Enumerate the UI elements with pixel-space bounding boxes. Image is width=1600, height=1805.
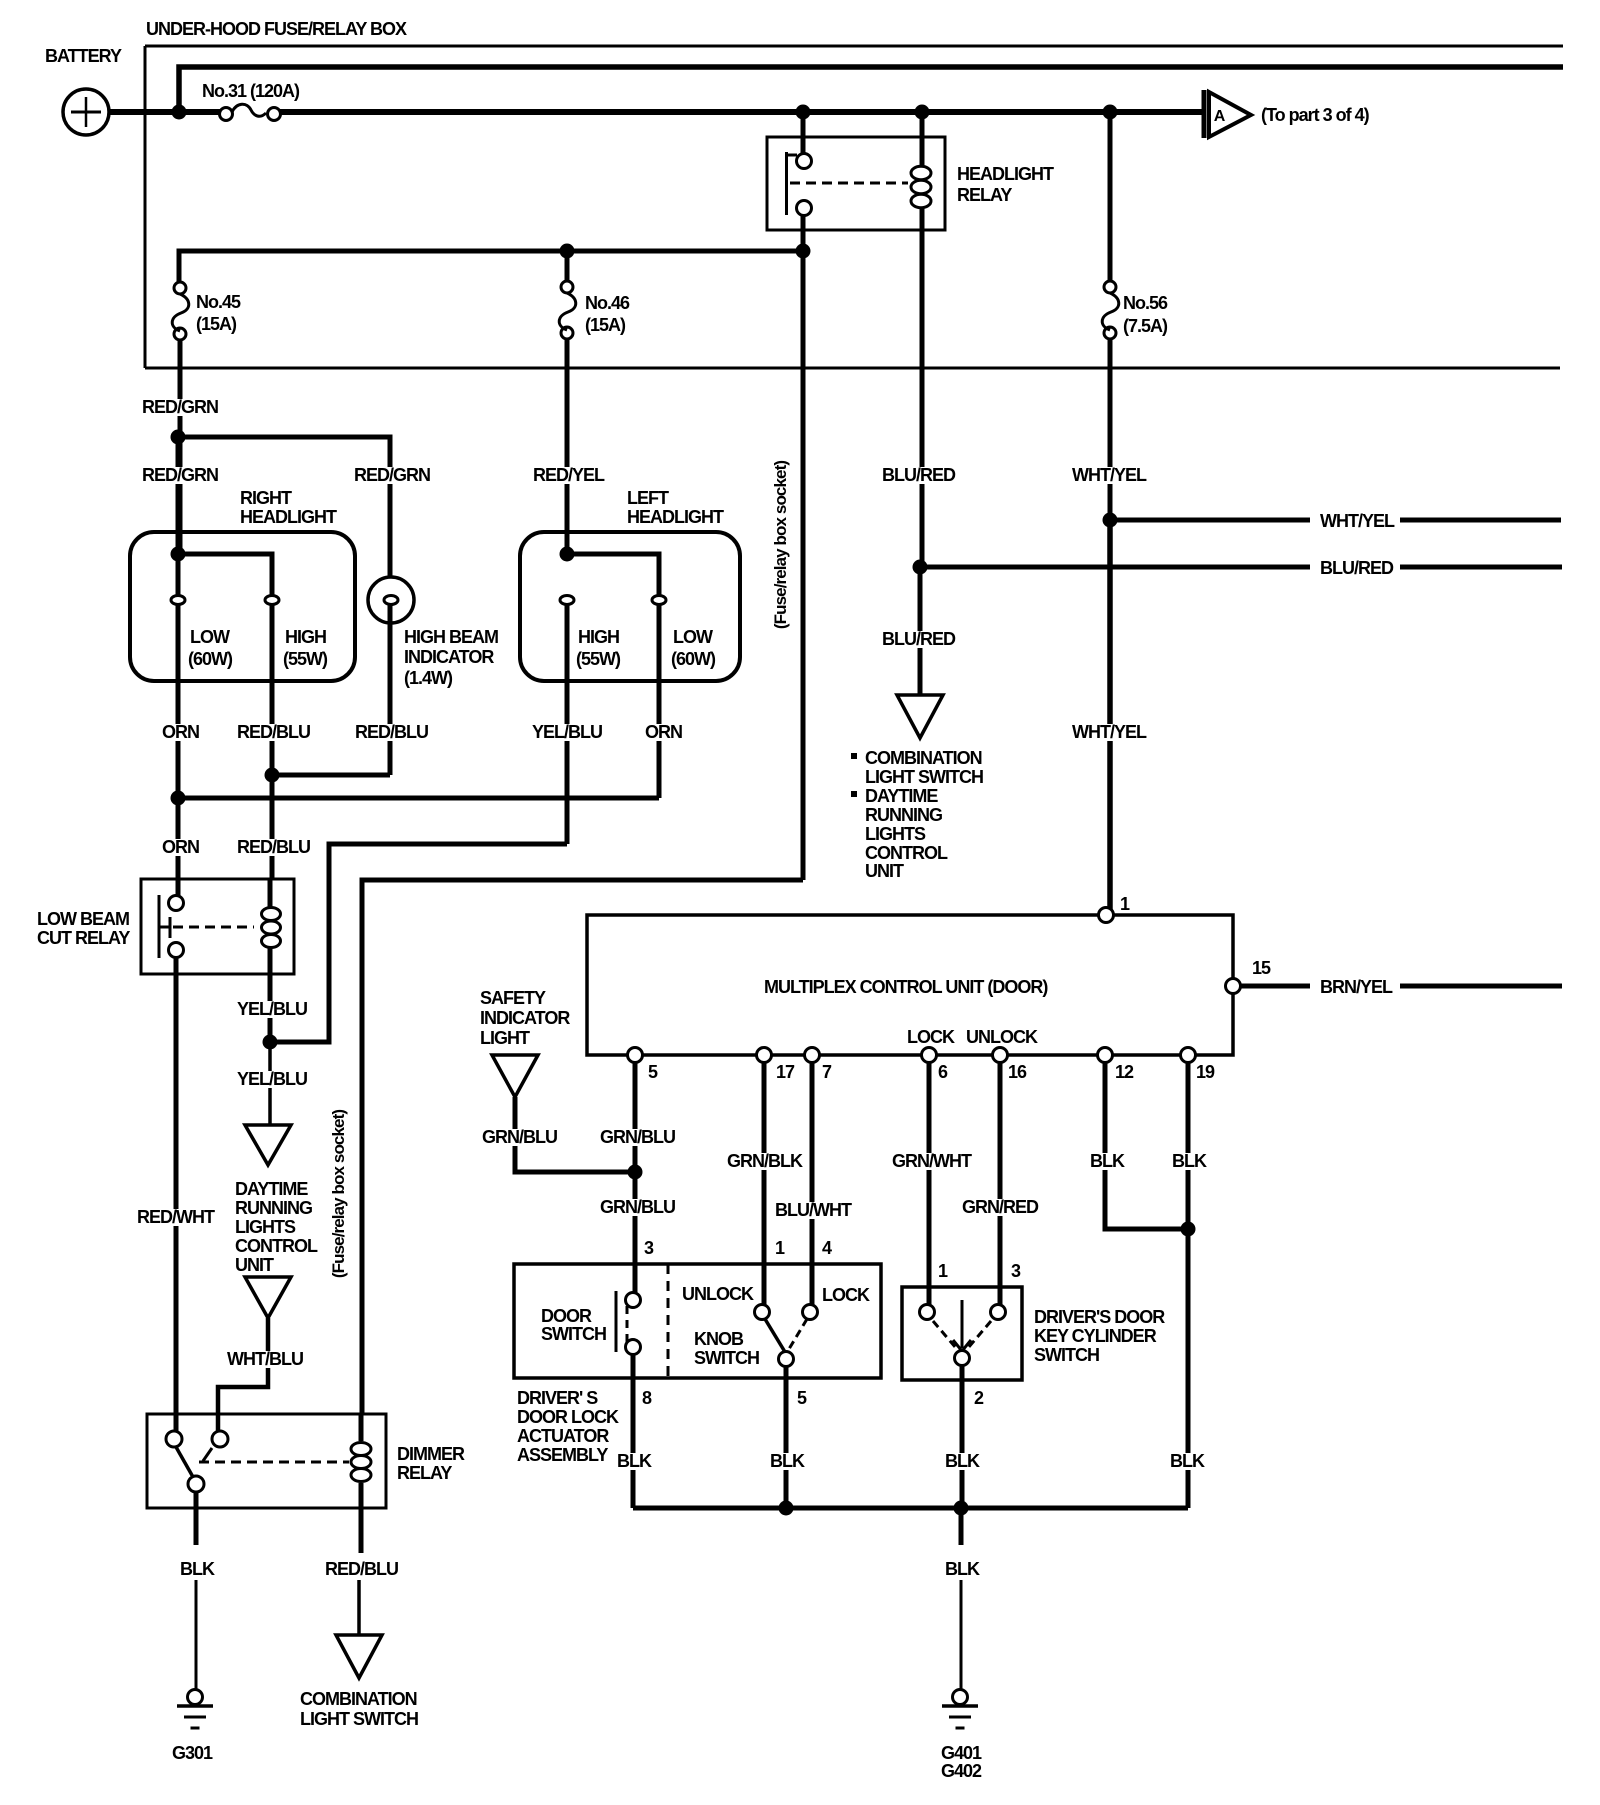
svg-text:DOOR: DOOR [541, 1306, 592, 1326]
svg-text:WHT/YEL: WHT/YEL [1320, 511, 1395, 531]
svg-text:INDICATOR: INDICATOR [480, 1008, 570, 1028]
svg-text:ORN: ORN [162, 837, 199, 857]
svg-text:(15A): (15A) [585, 315, 626, 335]
svg-text:(60W): (60W) [671, 649, 716, 669]
svg-text:G402: G402 [941, 1761, 982, 1781]
svg-text:HEADLIGHT: HEADLIGHT [240, 507, 337, 527]
svg-text:SWITCH: SWITCH [541, 1324, 606, 1344]
svg-text:(To part 3 of 4): (To part 3 of 4) [1261, 105, 1370, 125]
svg-text:COMBINATION: COMBINATION [865, 748, 982, 768]
svg-text:No.46: No.46 [585, 293, 630, 313]
svg-text:GRN/BLU: GRN/BLU [600, 1127, 675, 1147]
svg-text:KNOB: KNOB [694, 1329, 744, 1349]
svg-text:RED/YEL: RED/YEL [533, 465, 605, 485]
svg-text:HIGH: HIGH [578, 627, 619, 647]
svg-text:WHT/BLU: WHT/BLU [227, 1349, 303, 1369]
svg-text:CUT RELAY: CUT RELAY [37, 928, 130, 948]
svg-text:RELAY: RELAY [957, 185, 1012, 205]
svg-text:GRN/BLK: GRN/BLK [727, 1151, 803, 1171]
svg-text:LOCK: LOCK [907, 1027, 955, 1047]
svg-text:No.31 (120A): No.31 (120A) [202, 81, 300, 101]
svg-text:BLK: BLK [945, 1559, 980, 1579]
svg-text:(1.4W): (1.4W) [404, 668, 453, 688]
svg-text:UNLOCK: UNLOCK [966, 1027, 1038, 1047]
svg-text:HIGH: HIGH [285, 627, 326, 647]
svg-text:LIGHT SWITCH: LIGHT SWITCH [865, 767, 983, 787]
svg-text:G401: G401 [941, 1743, 982, 1763]
svg-text:COMBINATION: COMBINATION [300, 1689, 417, 1709]
svg-text:19: 19 [1196, 1062, 1215, 1082]
svg-text:RED/GRN: RED/GRN [354, 465, 430, 485]
svg-text:BLK: BLK [180, 1559, 215, 1579]
svg-text:UNLOCK: UNLOCK [682, 1284, 754, 1304]
svg-text:RUNNING: RUNNING [235, 1198, 312, 1218]
svg-text:(55W): (55W) [576, 649, 621, 669]
svg-text:12: 12 [1115, 1062, 1134, 1082]
svg-text:(Fuse/relay box socket): (Fuse/relay box socket) [771, 461, 790, 629]
svg-text:(7.5A): (7.5A) [1123, 316, 1168, 336]
svg-text:17: 17 [776, 1062, 795, 1082]
svg-text:1: 1 [775, 1238, 785, 1258]
svg-text:CONTROL: CONTROL [235, 1236, 318, 1256]
svg-text:RED/WHT: RED/WHT [137, 1207, 215, 1227]
svg-text:BLK: BLK [945, 1451, 980, 1471]
svg-text:3: 3 [1011, 1261, 1021, 1281]
svg-text:YEL/BLU: YEL/BLU [237, 1069, 307, 1089]
svg-text:WHT/YEL: WHT/YEL [1072, 722, 1147, 742]
svg-text:LOW: LOW [673, 627, 713, 647]
svg-text:LOW: LOW [190, 627, 230, 647]
svg-text:16: 16 [1008, 1062, 1027, 1082]
svg-text:RIGHT: RIGHT [240, 488, 292, 508]
svg-text:LIGHTS: LIGHTS [235, 1217, 296, 1237]
svg-text:RED/BLU: RED/BLU [325, 1559, 398, 1579]
svg-text:DOOR LOCK: DOOR LOCK [517, 1407, 619, 1427]
svg-text:UNIT: UNIT [235, 1255, 274, 1275]
svg-text:LOW BEAM: LOW BEAM [37, 909, 129, 929]
svg-text:ORN: ORN [162, 722, 199, 742]
svg-text:RED/GRN: RED/GRN [142, 397, 218, 417]
svg-text:BATTERY: BATTERY [45, 46, 122, 66]
svg-text:RED/BLU: RED/BLU [237, 722, 310, 742]
svg-text:YEL/BLU: YEL/BLU [532, 722, 602, 742]
svg-text:GRN/WHT: GRN/WHT [892, 1151, 972, 1171]
svg-text:SAFETY: SAFETY [480, 988, 546, 1008]
svg-text:KEY CYLINDER: KEY CYLINDER [1034, 1326, 1157, 1346]
svg-text:GRN/BLU: GRN/BLU [482, 1127, 557, 1147]
svg-text:DRIVER' S: DRIVER' S [517, 1388, 598, 1408]
svg-text:GRN/BLU: GRN/BLU [600, 1197, 675, 1217]
svg-text:1: 1 [1120, 894, 1130, 914]
svg-text:UNDER-HOOD FUSE/RELAY BOX: UNDER-HOOD FUSE/RELAY BOX [146, 19, 407, 39]
svg-text:CONTROL: CONTROL [865, 843, 948, 863]
svg-text:MULTIPLEX CONTROL UNIT (DOOR): MULTIPLEX CONTROL UNIT (DOOR) [764, 977, 1048, 997]
svg-text:A: A [1214, 108, 1226, 125]
svg-text:(55W): (55W) [283, 649, 328, 669]
svg-text:No.56: No.56 [1123, 293, 1168, 313]
svg-text:LEFT: LEFT [627, 488, 669, 508]
svg-text:ASSEMBLY: ASSEMBLY [517, 1445, 608, 1465]
svg-text:LIGHTS: LIGHTS [865, 824, 926, 844]
svg-text:HEADLIGHT: HEADLIGHT [627, 507, 724, 527]
svg-text:8: 8 [642, 1388, 652, 1408]
svg-text:ORN: ORN [645, 722, 682, 742]
svg-text:ACTUATOR: ACTUATOR [517, 1426, 609, 1446]
svg-text:BLU/RED: BLU/RED [882, 629, 956, 649]
svg-text:RED/GRN: RED/GRN [142, 465, 218, 485]
svg-text:5: 5 [797, 1388, 807, 1408]
svg-text:RED/BLU: RED/BLU [237, 837, 310, 857]
svg-text:LOCK: LOCK [822, 1285, 870, 1305]
svg-text:LIGHT: LIGHT [480, 1028, 530, 1048]
svg-text:4: 4 [822, 1238, 832, 1258]
svg-text:HIGH BEAM: HIGH BEAM [404, 627, 498, 647]
svg-text:BLK: BLK [1090, 1151, 1125, 1171]
svg-text:BLK: BLK [1170, 1451, 1205, 1471]
svg-text:DIMMER: DIMMER [397, 1444, 465, 1464]
svg-text:15: 15 [1252, 958, 1271, 978]
svg-text:DAYTIME: DAYTIME [235, 1179, 308, 1199]
svg-text:BLK: BLK [617, 1451, 652, 1471]
svg-text:UNIT: UNIT [865, 861, 904, 881]
svg-text:2: 2 [974, 1388, 984, 1408]
svg-text:BLK: BLK [1172, 1151, 1207, 1171]
svg-text:BLK: BLK [770, 1451, 805, 1471]
svg-text:GRN/RED: GRN/RED [962, 1197, 1039, 1217]
svg-text:1: 1 [938, 1261, 948, 1281]
svg-text:YEL/BLU: YEL/BLU [237, 999, 307, 1019]
svg-text:SWITCH: SWITCH [1034, 1345, 1099, 1365]
svg-text:BRN/YEL: BRN/YEL [1320, 977, 1393, 997]
svg-text:HEADLIGHT: HEADLIGHT [957, 164, 1054, 184]
svg-text:(Fuse/relay box socket): (Fuse/relay box socket) [329, 1110, 348, 1278]
svg-text:5: 5 [648, 1062, 658, 1082]
svg-text:(60W): (60W) [188, 649, 233, 669]
svg-text:WHT/YEL: WHT/YEL [1072, 465, 1147, 485]
svg-text:(15A): (15A) [196, 314, 237, 334]
svg-text:SWITCH: SWITCH [694, 1348, 759, 1368]
svg-text:3: 3 [644, 1238, 654, 1258]
svg-text:G301: G301 [172, 1743, 213, 1763]
svg-text:BLU/RED: BLU/RED [1320, 558, 1394, 578]
svg-text:No.45: No.45 [196, 292, 241, 312]
svg-text:LIGHT SWITCH: LIGHT SWITCH [300, 1709, 418, 1729]
svg-text:BLU/WHT: BLU/WHT [775, 1200, 852, 1220]
svg-text:INDICATOR: INDICATOR [404, 647, 494, 667]
svg-text:7: 7 [822, 1062, 832, 1082]
svg-text:RUNNING: RUNNING [865, 805, 942, 825]
svg-text:RELAY: RELAY [397, 1463, 452, 1483]
svg-text:BLU/RED: BLU/RED [882, 465, 956, 485]
svg-text:DAYTIME: DAYTIME [865, 786, 938, 806]
svg-text:RED/BLU: RED/BLU [355, 722, 428, 742]
svg-text:6: 6 [938, 1062, 948, 1082]
svg-text:DRIVER'S DOOR: DRIVER'S DOOR [1034, 1307, 1165, 1327]
